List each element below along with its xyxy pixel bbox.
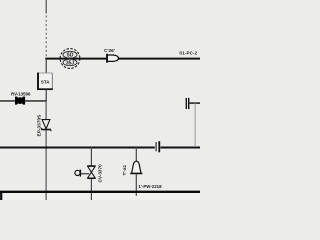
wire: top vertical dashed segment — [45, 16, 47, 59]
triac Q1 (double triangle, gate to left terminal) — [87, 166, 95, 179]
svg-text:RV-13506: RV-13506 — [11, 91, 31, 96]
svg-text:CV-3370: CV-3370 — [97, 164, 102, 183]
diode D1 (pointing down) — [41, 120, 51, 132]
wire: vertical into STA box — [45, 59, 47, 73]
varistor RV-13506 (filled body) — [15, 97, 25, 105]
svg-text:EP-3370S: EP-3370S — [37, 114, 43, 137]
wire: vertical from bus down (x=91.4) — [90, 147, 92, 200]
bus wire: mid horizontal right of C2 — [161, 147, 201, 149]
terminal circle G — [75, 170, 80, 175]
capacitor C3 (top right, to edge) — [186, 98, 200, 109]
gate tick — [79, 170, 81, 177]
svg-text:SD: SD — [67, 53, 74, 59]
svg-text:1'-PW-2218: 1'-PW-2218 — [138, 184, 162, 189]
wire: long vertical bus drop (x=45.7) — [45, 101, 47, 200]
svg-text:T'-a1: T'-a1 — [122, 165, 127, 176]
capacitor C2 (series, on bus) — [156, 141, 159, 152]
wire: light vertical from C3 line to bus — [194, 103, 196, 147]
svg-text:35J: 35J — [66, 61, 75, 67]
off-page connector CN2 (bell pointing down) — [130, 161, 142, 173]
wire: bus to bell connector — [135, 147, 137, 161]
bus wire: mid horizontal left of C2 — [0, 147, 155, 149]
wire: left horizontal through varistor — [0, 100, 47, 102]
gate wire — [81, 173, 89, 175]
wire: top vertical solid segment — [45, 0, 47, 14]
meter M1 SD/35J — [60, 49, 80, 69]
svg-text:C'26': C'26' — [104, 48, 115, 53]
svg-text:STA: STA — [41, 79, 51, 84]
border frame left tick — [0, 191, 2, 200]
svg-text:S1-PC-2: S1-PC-2 — [179, 51, 197, 56]
border frame bottom line — [0, 191, 200, 193]
off-page connector CN1 (bullet pointing right) — [107, 54, 118, 63]
wire: STA box to node — [45, 90, 47, 101]
relay box STA — [37, 73, 53, 90]
wire: main horizontal run to right edge — [45, 58, 200, 60]
wire: bell connector down across border — [135, 174, 137, 196]
